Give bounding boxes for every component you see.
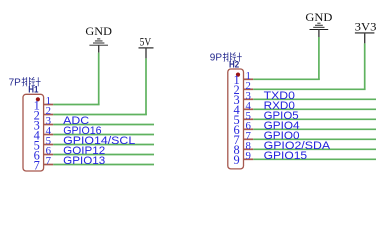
wire GND1 vertical to pin 1: [98, 53, 100, 105]
svg-text:7P: 7P: [9, 77, 22, 88]
connector H2 pin 2 stub: [244, 88, 254, 90]
power symbol 3V3 stem: [364, 33, 366, 44]
wire 5V vertical to pin 2: [145, 58, 147, 114]
connector H2 pin 8 stub: [244, 148, 254, 150]
wire from H2 pin 7: [253, 138, 376, 140]
wire from H2 pin 6: [253, 128, 376, 130]
connector H1 pin 2 stub: [44, 114, 54, 116]
wire from H1 pin 4: [53, 134, 154, 136]
connector H2 pin 5 stub: [244, 118, 254, 120]
connector H1 pin 5 stub: [44, 144, 54, 146]
wire from H2 pin 8: [253, 148, 376, 150]
power symbol 5V bar: [139, 47, 154, 49]
wire from H1 pin 6: [53, 154, 154, 156]
connector H2 pin-1 dot: [236, 73, 240, 77]
connector H1 title hanzi PAI: [22, 77, 31, 86]
power symbol 3V3 bar: [355, 32, 375, 34]
connector H1 title hanzi ZHEN: [31, 77, 40, 86]
wire from H2 pin 3: [253, 98, 376, 100]
wire 3V3 vertical to pin 2: [364, 43, 366, 89]
svg-text:GPIO15: GPIO15: [264, 150, 308, 162]
power symbol GND1 stem: [98, 45, 100, 53]
connector H2 pin 9 stub: [244, 158, 254, 160]
connector H1 pin 6 stub: [44, 154, 54, 156]
svg-text:3V3: 3V3: [355, 21, 377, 33]
power symbol GND2 stem: [318, 30, 320, 38]
connector H1 pin 1 stub: [44, 104, 54, 106]
svg-text:GND: GND: [85, 26, 112, 38]
connector H2 pin 1 stub: [244, 78, 254, 80]
connector H1 pin-1 dot: [36, 97, 40, 101]
svg-text:5V: 5V: [140, 37, 152, 49]
wire from H1 pin 2: [53, 114, 147, 116]
connector H1 body outline: [23, 94, 44, 171]
connector H2 body outline: [228, 69, 244, 169]
power symbol 5V stem: [145, 48, 147, 59]
svg-text:7: 7: [34, 158, 40, 172]
wire from H1 pin 5: [53, 144, 154, 146]
wire from H2 pin 4: [253, 108, 376, 110]
svg-text:9P: 9P: [210, 53, 223, 64]
connector H2 title hanzi PAI: [223, 52, 232, 61]
connector H1 pin 7 stub: [44, 164, 54, 166]
connector H1 pin 3 stub: [44, 124, 54, 126]
connector H1 pin 4 stub: [44, 134, 54, 136]
wire from H2 pin 9: [253, 158, 376, 160]
connector H2 pin 6 stub: [244, 128, 254, 130]
wire from H1 pin 3: [53, 124, 154, 126]
power symbol GND1 ground bars: [89, 39, 108, 45]
svg-text:GND: GND: [305, 12, 332, 24]
wire from H2 pin 1: [253, 78, 320, 80]
svg-text:9: 9: [233, 153, 239, 167]
wire from H2 pin 2: [253, 88, 365, 90]
connector H2 pin 7 stub: [244, 138, 254, 140]
wire from H2 pin 5: [253, 118, 376, 120]
svg-text:GPIO13: GPIO13: [63, 155, 105, 167]
svg-text:9: 9: [246, 150, 251, 162]
svg-text:7: 7: [46, 155, 52, 167]
wire from H1 pin 1: [53, 104, 99, 106]
connector H2 pin 3 stub: [244, 98, 254, 100]
connector H2 pin 4 stub: [244, 108, 254, 110]
wire from H1 pin 7: [53, 164, 154, 166]
connector H2 title hanzi ZHEN: [233, 52, 242, 61]
power symbol GND2 ground bars: [310, 23, 329, 29]
wire GND2 vertical to pin 1: [318, 37, 320, 79]
